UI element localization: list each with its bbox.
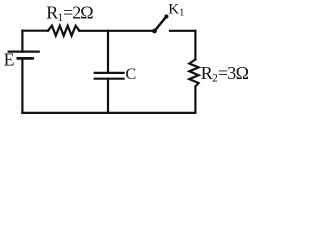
svg-text:R1=2Ω: R1=2Ω: [46, 3, 93, 25]
svg-text:K1: K1: [168, 1, 184, 18]
svg-text:E: E: [4, 49, 15, 69]
svg-text:C: C: [126, 66, 137, 83]
svg-text:R2=3Ω: R2=3Ω: [201, 63, 249, 85]
